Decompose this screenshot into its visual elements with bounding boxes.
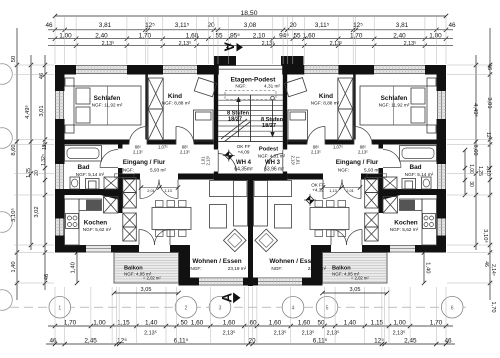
- furniture: lounge diamond right: [255, 229, 278, 252]
- svg-text:Kochen: Kochen: [394, 220, 418, 227]
- door: bath right: [383, 167, 401, 169]
- window: stairwell top window: [219, 65, 282, 67]
- svg-text:Bad: Bad: [77, 164, 89, 171]
- svg-text:2,13⁵: 2,13⁵: [144, 330, 157, 336]
- svg-text:1,00: 1,00: [59, 32, 72, 39]
- svg-text:12⁵: 12⁵: [374, 338, 384, 345]
- wall: stairwell west wall: [214, 65, 218, 150]
- balcony depth dim 1,40 right: [423, 253, 425, 284]
- furniture: kitchen counter right: [422, 199, 437, 245]
- svg-text:3,10⁵: 3,10⁵: [10, 208, 17, 222]
- door width dim under double door left: [141, 187, 178, 189]
- svg-text:2: 2: [185, 305, 188, 311]
- furniture: bathtub left: [65, 146, 102, 162]
- wall: stairwell south wall: [214, 174, 287, 181]
- svg-text:12⁵: 12⁵: [42, 142, 48, 150]
- svg-text:2,13⁵: 2,13⁵: [404, 41, 417, 47]
- wall: living-room south wall with windows: [179, 278, 200, 286]
- furniture: lintel strip hall right: [367, 174, 387, 178]
- svg-text:WH 3: WH 3: [265, 160, 281, 166]
- svg-text:2,13⁵: 2,13⁵: [262, 41, 275, 47]
- svg-text:6,11⁵: 6,11⁵: [313, 338, 328, 345]
- svg-text:1,13: 1,13: [164, 188, 172, 193]
- svg-text:46: 46: [483, 261, 489, 267]
- svg-text:20: 20: [289, 22, 297, 29]
- svg-text:Wohnen / Essen: Wohnen / Essen: [192, 258, 241, 265]
- svg-text:3,01: 3,01: [486, 97, 492, 108]
- furniture: child desk right: [284, 78, 306, 97]
- svg-text:1,70: 1,70: [64, 320, 77, 327]
- door: child room left: [175, 127, 177, 145]
- witness lines left: [14, 64, 54, 66]
- svg-text:1,60: 1,60: [298, 320, 311, 327]
- svg-text:8,60: 8,60: [472, 144, 478, 155]
- door: double door hall to living, left: [139, 180, 141, 199]
- furniture: child bed right: [288, 110, 308, 141]
- furniture: wardrobe child room right: [338, 78, 353, 109]
- svg-text:1,60: 1,60: [223, 320, 236, 327]
- svg-text:2,13⁵: 2,13⁵: [358, 150, 368, 155]
- svg-text:46: 46: [486, 64, 492, 70]
- wall: bath south wall: [55, 189, 118, 195]
- furniture: armchair/table right: [275, 205, 292, 229]
- svg-text:2,13⁵: 2,13⁵: [393, 330, 406, 336]
- svg-text:1,07⁵: 1,07⁵: [333, 145, 343, 150]
- svg-text:1,00: 1,00: [93, 320, 106, 327]
- svg-text:1,07⁵: 1,07⁵: [158, 145, 168, 150]
- dimension row A bottom: [48, 325, 453, 327]
- furniture: stove right: [423, 214, 436, 229]
- window: east wall windows: [437, 91, 446, 119]
- svg-text:50: 50: [317, 320, 325, 327]
- furniture: nightstands right: [427, 78, 436, 86]
- door width dim under double door right: [323, 187, 360, 189]
- svg-text:1,32⁵: 1,32⁵: [41, 154, 47, 166]
- svg-text:2,13⁵: 2,13⁵: [206, 155, 211, 165]
- grid bubbles: [49, 296, 71, 318]
- svg-text:46: 46: [444, 338, 452, 345]
- dimension row 2: [48, 29, 453, 31]
- furniture: dining table right: [310, 208, 349, 230]
- wall: bedroom south wall with door openings: [55, 140, 129, 145]
- svg-text:NGF:: NGF:: [190, 266, 201, 271]
- svg-text:2,13⁵: 2,13⁵: [179, 41, 192, 47]
- furniture: child bed left: [194, 110, 214, 141]
- furniture: shower right: [383, 177, 397, 189]
- svg-text:1,40: 1,40: [11, 261, 17, 272]
- svg-text:NGF: 5,14 m²: NGF: 5,14 m²: [405, 172, 434, 177]
- svg-text:4,49⁵: 4,49⁵: [472, 103, 479, 117]
- svg-text:+4,09: +4,09: [238, 149, 250, 154]
- svg-text:NGF: 8,88 m²: NGF: 8,88 m²: [162, 101, 191, 106]
- wall: west exterior: [55, 65, 65, 91]
- svg-text:63,96 m²: 63,96 m²: [264, 167, 284, 173]
- svg-text:46: 46: [39, 73, 45, 79]
- svg-text:Schlafen: Schlafen: [381, 95, 408, 102]
- door: bedroom right: [353, 127, 355, 145]
- svg-text:2,13⁵: 2,13⁵: [327, 330, 340, 336]
- svg-text:NGF: 8,88 m²: NGF: 8,88 m²: [311, 101, 340, 106]
- furniture: stove left: [66, 214, 79, 229]
- level mark Podest OK FF +4,09: [225, 152, 233, 160]
- svg-text:WH 4: WH 4: [236, 160, 252, 166]
- svg-text:OK FF: OK FF: [237, 144, 251, 149]
- furniture: double bed bedroom left: [74, 86, 141, 125]
- svg-text:4: 4: [292, 305, 295, 311]
- svg-text:NGF:: NGF:: [123, 167, 134, 172]
- svg-text:1,40: 1,40: [71, 262, 77, 273]
- left dim column lines: [16, 28, 18, 300]
- svg-text:Podest: Podest: [259, 147, 278, 153]
- svg-text:Eingang / Flur: Eingang / Flur: [123, 159, 166, 166]
- furniture: dining chairs left: [156, 201, 164, 208]
- svg-text:2,13⁵: 2,13⁵: [291, 156, 296, 166]
- svg-text:2,01: 2,01: [147, 188, 155, 193]
- svg-text:64,35m²: 64,35m²: [234, 167, 253, 173]
- furniture: child desk left: [194, 78, 216, 97]
- wall: hall south walls: [123, 174, 141, 180]
- svg-text:2,40: 2,40: [393, 32, 406, 39]
- svg-text:6: 6: [451, 305, 454, 311]
- stair: treads: [218, 99, 283, 101]
- svg-text:NGF:: NGF:: [338, 167, 349, 172]
- svg-text:60: 60: [249, 320, 257, 327]
- level mark living right OK FF +4,32: [306, 196, 314, 204]
- svg-text:1,00: 1,00: [429, 32, 442, 39]
- stair: dashed headroom line: [225, 91, 276, 100]
- svg-text:1,25: 1,25: [477, 166, 483, 176]
- window: top wall windows: [76, 65, 127, 74]
- svg-text:2,40: 2,40: [95, 32, 108, 39]
- svg-text:50: 50: [11, 56, 17, 62]
- svg-text:Bad: Bad: [409, 164, 421, 171]
- svg-text:Eingang / Flur: Eingang / Flur: [336, 159, 379, 166]
- furniture: dining table left: [152, 208, 191, 230]
- svg-text:NGF:: NGF:: [271, 266, 282, 271]
- stair: walk line right flight: [271, 96, 275, 100]
- svg-text:A: A: [220, 293, 235, 303]
- svg-text:1,60: 1,60: [191, 320, 204, 327]
- furniture: fridge left: [104, 197, 119, 214]
- door: balcony french door right: [361, 230, 363, 246]
- svg-text:3,81: 3,81: [396, 22, 409, 29]
- svg-text:1,25: 1,25: [26, 168, 32, 178]
- door: child room right: [324, 127, 326, 145]
- svg-text:2,13⁵: 2,13⁵: [102, 41, 115, 47]
- svg-text:2,13⁵: 2,13⁵: [133, 150, 143, 155]
- svg-text:6,11⁵: 6,11⁵: [174, 338, 189, 345]
- furniture: sofa right: [254, 181, 292, 197]
- svg-text:18,50: 18,50: [240, 10, 257, 17]
- svg-text:3: 3: [219, 305, 222, 311]
- svg-text:1,70: 1,70: [350, 32, 363, 39]
- svg-text:3,02: 3,02: [34, 206, 40, 217]
- wall: top exterior: [55, 65, 76, 75]
- dimension row 4: window heights: [48, 45, 453, 47]
- furniture: hall wardrobe right: [365, 178, 379, 193]
- svg-text:46: 46: [44, 274, 50, 280]
- witness lines bottom: [54, 287, 56, 343]
- balcony width dim left 3,05: [114, 292, 179, 294]
- door: balcony french door left: [138, 230, 140, 246]
- stair: center line: [250, 95, 252, 142]
- chimney block left of stair window: [214, 56, 236, 66]
- svg-text:5,93 m²: 5,93 m²: [150, 167, 166, 172]
- svg-text:3,05: 3,05: [141, 287, 152, 293]
- svg-text:NGF: 5,62 m²: NGF: 5,62 m²: [390, 227, 419, 232]
- svg-text:12⁵: 12⁵: [117, 338, 127, 345]
- dimension row B bottom: [46, 343, 455, 345]
- svg-text:NGF: 5,62 m²: NGF: 5,62 m²: [83, 227, 112, 232]
- svg-text:4,49⁵: 4,49⁵: [24, 105, 31, 119]
- svg-text:Kind: Kind: [168, 93, 182, 100]
- svg-text:1,00: 1,00: [393, 320, 406, 327]
- balcony floor: [114, 253, 179, 284]
- wall: east exterior: [437, 65, 447, 91]
- svg-text:2,13⁵: 2,13⁵: [330, 41, 343, 47]
- furniture: WC right: [402, 179, 416, 190]
- svg-text:18/27: 18/27: [228, 117, 242, 123]
- svg-text:3,11⁵: 3,11⁵: [175, 22, 190, 29]
- furniture: wardrobe child room left: [148, 78, 163, 109]
- svg-text:2,13⁵: 2,13⁵: [302, 330, 315, 336]
- wall: south exterior (kitchen/balcony): [55, 245, 86, 253]
- svg-text:1,15: 1,15: [371, 320, 384, 327]
- svg-text:3,08: 3,08: [244, 22, 257, 29]
- wall: party wall between apartments: [248, 180, 253, 286]
- svg-text:4,31 m²: 4,31 m²: [264, 84, 280, 89]
- svg-text:50: 50: [180, 320, 188, 327]
- door: apartment entry right: [282, 150, 284, 172]
- svg-text:Kochen: Kochen: [84, 220, 108, 227]
- furniture: washbasin left: [70, 177, 80, 189]
- wall: living-room block west wall: [179, 245, 191, 286]
- furniture: lintel strip hall left: [115, 174, 135, 178]
- svg-text:2,10: 2,10: [253, 32, 266, 39]
- svg-text:1,40: 1,40: [425, 262, 431, 273]
- svg-text:20: 20: [248, 338, 256, 345]
- svg-text:18/27: 18/27: [262, 123, 276, 129]
- right dim column lines: [464, 150, 466, 195]
- svg-text:95⁵: 95⁵: [230, 32, 240, 39]
- svg-text:55: 55: [215, 32, 223, 39]
- svg-text:= 2,02 m²: = 2,02 m²: [351, 276, 369, 281]
- svg-text:1,60: 1,60: [303, 32, 316, 39]
- svg-text:20: 20: [34, 170, 40, 176]
- witness lines right: [447, 64, 493, 66]
- svg-text:1,00: 1,00: [468, 164, 474, 174]
- svg-text:94⁵: 94⁵: [279, 32, 289, 39]
- svg-text:55: 55: [293, 32, 301, 39]
- furniture: dining chairs right: [338, 201, 346, 208]
- svg-text:2,45: 2,45: [404, 338, 417, 345]
- stair: break line: [221, 119, 247, 139]
- furniture: double bed bedroom right: [360, 86, 427, 125]
- svg-text:23,19 m²: 23,19 m²: [228, 266, 247, 271]
- svg-text:22,81 m²: 22,81 m²: [308, 266, 327, 271]
- svg-text:5: 5: [326, 305, 329, 311]
- furniture: washbasin right: [422, 177, 432, 189]
- furniture: kitchen counter left: [65, 199, 80, 245]
- svg-text:2,13⁵: 2,13⁵: [311, 150, 321, 155]
- svg-text:1,13: 1,13: [329, 188, 337, 193]
- wall: bath east wall: [118, 145, 123, 149]
- wall: stairwell east wall: [283, 65, 287, 150]
- svg-text:8,60: 8,60: [11, 144, 17, 155]
- svg-text:2,10: 2,10: [485, 166, 491, 176]
- partial grid bubbles left edge: [0, 64, 12, 85]
- svg-text:3,81: 3,81: [99, 22, 112, 29]
- svg-text:Etagen-Podest: Etagen-Podest: [231, 77, 277, 84]
- wall: bedroom/child partition: [145, 75, 148, 140]
- svg-text:NGF: 4,31 m²: NGF: 4,31 m²: [258, 154, 286, 159]
- stair: walk line up-arrow left flight: [238, 99, 240, 137]
- furniture: lounge diamond left: [223, 229, 246, 252]
- svg-text:Wohnen / Essen: Wohnen / Essen: [269, 258, 318, 265]
- svg-text:30: 30: [468, 181, 474, 187]
- balcony floor: [323, 253, 388, 284]
- svg-text:12⁵: 12⁵: [353, 22, 363, 29]
- svg-text:2,13⁵: 2,13⁵: [223, 330, 236, 336]
- svg-text:3,10⁵: 3,10⁵: [482, 229, 489, 243]
- svg-text:1: 1: [58, 305, 61, 311]
- furniture: WC left: [86, 179, 100, 190]
- door: double door hall to living, right: [360, 180, 362, 199]
- furniture: fridge right: [383, 197, 398, 214]
- svg-text:2,13⁵: 2,13⁵: [180, 150, 190, 155]
- svg-text:NGF: 11,92 m²: NGF: 11,92 m²: [92, 103, 123, 108]
- svg-text:NGF:: NGF:: [235, 84, 246, 89]
- dimension row: overall 18,50: [55, 15, 446, 17]
- balcony width dim right 3,05: [323, 292, 388, 294]
- furniture: bathtub right: [400, 146, 437, 162]
- svg-text:46: 46: [49, 338, 57, 345]
- svg-text:2,13⁵: 2,13⁵: [274, 330, 287, 336]
- furniture: nightstands left: [65, 78, 74, 86]
- door: apartment entry left (from Podest): [217, 150, 219, 172]
- dimension row 3: [48, 38, 453, 40]
- svg-text:46: 46: [45, 22, 53, 29]
- svg-text:Schlafen: Schlafen: [94, 95, 121, 102]
- svg-text:3,05: 3,05: [350, 287, 361, 293]
- svg-text:46: 46: [448, 22, 456, 29]
- furniture: washer dark box right: [400, 200, 415, 210]
- svg-text:NGF: 5,14 m²: NGF: 5,14 m²: [76, 172, 105, 177]
- stair: upper landing line: [218, 94, 283, 96]
- furniture: sofa left: [210, 181, 248, 197]
- svg-text:1,70: 1,70: [490, 301, 496, 312]
- svg-text:5,93 m²: 5,93 m²: [364, 167, 380, 172]
- furniture: hall wardrobe left: [123, 178, 137, 193]
- svg-text:12⁵: 12⁵: [485, 132, 491, 140]
- door: bath left: [100, 167, 118, 169]
- svg-text:Kind: Kind: [319, 93, 333, 100]
- stair: lower landing (Podest) line: [218, 141, 283, 143]
- svg-text:2,14⁵: 2,14⁵: [490, 264, 496, 276]
- svg-text:1,40: 1,40: [145, 320, 158, 327]
- svg-text:3,11⁵: 3,11⁵: [315, 22, 330, 29]
- grid axis dashed line: [10, 306, 466, 308]
- svg-text:NGF: 11,92 m²: NGF: 11,92 m²: [379, 103, 410, 108]
- wall: living-room block east wall: [311, 245, 323, 286]
- balcony depth dim 1,40 left: [76, 253, 78, 284]
- window: west wall windows: [55, 91, 64, 119]
- svg-text:A: A: [221, 42, 236, 52]
- svg-text:3,01: 3,01: [39, 105, 45, 116]
- svg-text:= 2,02 m²: = 2,02 m²: [143, 276, 161, 281]
- chimney block right of stair window: [281, 56, 304, 66]
- furniture: armchair/table left: [210, 205, 227, 229]
- door: bedroom left: [146, 127, 148, 145]
- furniture: shower left: [104, 177, 118, 189]
- svg-text:1,40: 1,40: [344, 320, 357, 327]
- furniture: washer dark box left: [86, 200, 101, 210]
- witness lines top: [54, 17, 56, 64]
- svg-text:1,60: 1,60: [269, 320, 282, 327]
- svg-text:2,01: 2,01: [346, 188, 354, 193]
- svg-text:12⁵: 12⁵: [145, 22, 155, 29]
